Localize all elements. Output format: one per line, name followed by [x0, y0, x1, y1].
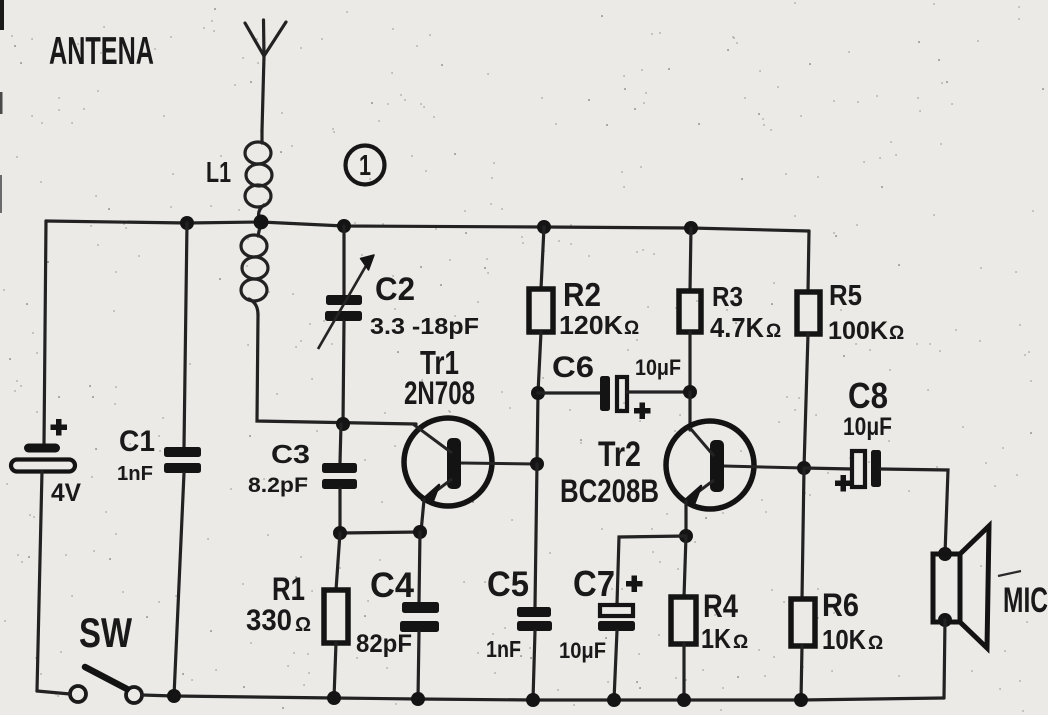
svg-text:R1: R1 [272, 571, 305, 607]
capacitor C8 [804, 450, 948, 554]
capacitor C1 [164, 223, 201, 696]
wire C3 node to C4 node [340, 532, 420, 533]
junction node R1/C3 [333, 526, 347, 540]
junction node C4/emitter [413, 525, 427, 539]
wire L1 bottom to Tr1 base node [257, 315, 416, 424]
resistor R4 [671, 536, 696, 700]
resistor R3 [679, 228, 701, 392]
junction node speaker bottom [938, 613, 952, 627]
svg-text:Ω: Ω [766, 321, 781, 342]
svg-text:4.7K: 4.7K [710, 312, 764, 343]
transistor Tr2 [666, 392, 804, 536]
svg-text:10μF: 10μF [843, 413, 892, 441]
svg-text:4V: 4V [51, 479, 81, 507]
svg-text:BC208B: BC208B [560, 473, 659, 509]
svg-text:ANTENA: ANTENA [49, 30, 154, 73]
switch SW [70, 667, 142, 703]
svg-text:Ω: Ω [295, 614, 311, 636]
svg-text:C2: C2 [375, 271, 415, 307]
junction node bottom C4 [411, 692, 425, 706]
svg-text:8.2pF: 8.2pF [248, 474, 308, 497]
svg-text:1nF: 1nF [117, 463, 153, 485]
svg-text:C6: C6 [552, 351, 594, 384]
capacitor C2 (trimmer) [318, 226, 374, 424]
resistor R6 [791, 468, 815, 700]
svg-text:R2: R2 [563, 276, 601, 313]
junction node Tr2 emitter [679, 529, 693, 543]
capacitor C5 [517, 464, 552, 700]
svg-text:R4: R4 [703, 588, 738, 624]
svg-text:C5: C5 [487, 565, 529, 604]
svg-text:1nF: 1nF [486, 636, 521, 662]
wire bottom ground bus [142, 695, 944, 700]
antenna [245, 20, 286, 131]
svg-text:Ω: Ω [889, 323, 904, 344]
svg-text:L1: L1 [206, 157, 231, 189]
junction node C2/top [337, 219, 351, 233]
svg-text:R6: R6 [822, 587, 859, 623]
svg-text:330: 330 [246, 604, 292, 637]
junction node bottom R1 [327, 691, 341, 705]
wire bottom ground bus left [37, 691, 70, 694]
resistor R2 [529, 227, 553, 464]
wire battery branch upper [44, 221, 46, 444]
junction node C8/R5 [797, 461, 811, 475]
svg-text:10K: 10K [822, 624, 866, 655]
junction node C6 right [683, 385, 697, 399]
svg-text:R3: R3 [712, 281, 743, 312]
wire top supply bus [46, 221, 809, 231]
svg-text:120K: 120K [559, 310, 623, 340]
transistor Tr1 [404, 418, 536, 532]
svg-text:10μF: 10μF [559, 638, 606, 663]
capacitor C4 [400, 532, 439, 699]
svg-text:3.3 -18pF: 3.3 -18pF [370, 313, 479, 339]
svg-text:C1: C1 [119, 425, 155, 458]
svg-text:C3: C3 [271, 439, 310, 469]
svg-text:1K: 1K [701, 623, 731, 654]
svg-text:C4: C4 [370, 566, 415, 605]
svg-text:SW: SW [79, 609, 132, 656]
junction node bottom C1 [167, 689, 181, 703]
svg-text:R5: R5 [829, 280, 862, 312]
svg-text:82pF: 82pF [356, 630, 412, 658]
svg-text:Tr2: Tr2 [598, 435, 641, 474]
wire Tr2 emitter to C7 [617, 536, 686, 604]
junction node C1/top [180, 216, 194, 230]
capacitor C6 [538, 376, 690, 419]
junction node bottom R6 [794, 693, 808, 707]
capacitor C3 [322, 424, 357, 533]
svg-text:Ω: Ω [733, 632, 748, 653]
svg-text:C7: C7 [573, 563, 615, 604]
node marker 1 (circled) [346, 146, 385, 185]
junction node Tr1 collector [530, 457, 544, 471]
junction node C2/base line [336, 417, 350, 431]
pointer line near MIC [998, 571, 1021, 576]
svg-text:C8: C8 [848, 375, 888, 416]
wire battery branch lower [37, 471, 42, 691]
svg-text:Ω: Ω [624, 318, 639, 339]
wire speaker to bottom bus [944, 620, 945, 698]
resistor R1 [324, 533, 348, 698]
junction node bottom R4 [677, 693, 691, 707]
inductor L1 [241, 131, 272, 315]
junction node L1/top [254, 215, 269, 230]
svg-text:10μF: 10μF [635, 355, 681, 380]
junction node bottom C5 [526, 693, 540, 707]
junction node R3/top [684, 221, 698, 235]
resistor R5 [797, 231, 820, 468]
junction node R2/top [537, 220, 551, 234]
junction node C6 left [531, 386, 545, 400]
battery B1 [24, 444, 60, 453]
battery B1 plus [51, 419, 68, 436]
capacitor C7 [598, 576, 643, 701]
svg-text:1: 1 [359, 150, 371, 182]
svg-text:Ω: Ω [868, 633, 883, 654]
svg-text:100K: 100K [828, 317, 888, 345]
speaker (MIC) [933, 526, 989, 648]
junction node speaker top [938, 547, 952, 561]
svg-text:MIC: MIC [1003, 581, 1048, 620]
junction node bottom C7 [607, 693, 621, 707]
svg-text:2N708: 2N708 [404, 375, 475, 411]
